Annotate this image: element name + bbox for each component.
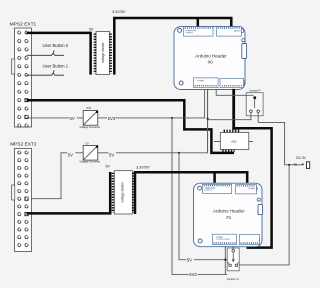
svg-text:MPS2 EXT2: MPS2 EXT2 xyxy=(10,142,37,148)
chip U5 left lead xyxy=(214,141,221,143)
svg-text:voltage divider: voltage divider xyxy=(120,181,124,202)
svg-text:Voltage Converter: Voltage Converter xyxy=(79,160,100,164)
svg-text:5V3: 5V3 xyxy=(108,116,116,121)
junction 5V to jumper branch xyxy=(178,152,180,154)
jumper J1 box xyxy=(246,89,263,116)
connector J_EXT1 pins xyxy=(18,31,28,127)
chip U5 top pins xyxy=(224,130,241,133)
wire EXT1 pin1 to voltage divider U2 (thick) xyxy=(27,33,91,75)
svg-text:3.3V/5V: 3.3V/5V xyxy=(112,10,126,14)
svg-text:MPS2 EXT1: MPS2 EXT1 xyxy=(10,22,37,28)
pushbutton S2 xyxy=(27,70,65,75)
board A0 bottom-left header xyxy=(193,78,218,88)
voltage divider U2 right pin row xyxy=(109,34,112,74)
DC IN barrel jack xyxy=(307,162,310,169)
svg-text:5V3: 5V3 xyxy=(87,106,92,110)
chip U5 right lead xyxy=(249,141,253,143)
wire board A0 bottom to chip U5 top (thick) xyxy=(232,89,235,130)
voltage converter U3 xyxy=(79,106,100,129)
jumper J2 box xyxy=(227,248,240,281)
svg-text:3.3V/5V: 3.3V/5V xyxy=(136,165,150,169)
wire 5V branch to jumper J2 (thin) xyxy=(179,153,227,260)
wire jumper J1 right pin to DC IN (thin) xyxy=(258,113,303,165)
wire EXT2 to converter U4 (thin) xyxy=(27,153,84,199)
connector J_EXT2 body xyxy=(12,149,32,252)
svg-text:Jumper J1: Jumper J1 xyxy=(227,277,240,281)
svg-text:#0: #0 xyxy=(208,60,214,65)
chip U5 (ADC) body xyxy=(220,132,249,149)
wire board A1 bottom to 5V3 (thin vertical) xyxy=(224,246,226,274)
connector J_EXT2 pins xyxy=(18,151,28,247)
pushbutton S1 xyxy=(27,50,65,55)
board A0 bottom-right header xyxy=(220,78,244,87)
board A1 side connector xyxy=(257,198,262,215)
wire board A0 bottom 5V vertical (thin) xyxy=(207,89,209,153)
board A0 top-right header xyxy=(217,27,242,36)
svg-text:User Button 0: User Button 0 xyxy=(43,43,69,48)
wire 5V3 net converter U3 to jumper J2 (thin) xyxy=(98,89,227,275)
board A1 top-left header xyxy=(203,184,232,193)
svg-text:Jumper P: Jumper P xyxy=(249,89,260,93)
svg-text:5V: 5V xyxy=(86,142,89,146)
wire board A0 bottom pin to jumper J1 select pin (thin) xyxy=(216,89,253,95)
svg-text:#1: #1 xyxy=(226,215,232,220)
voltage converter U4 xyxy=(79,142,100,164)
wire jumper J2 top pin to board A1 (thin) xyxy=(232,246,234,250)
Arduino Header #1 board A1 xyxy=(194,183,263,247)
svg-text:5V: 5V xyxy=(68,152,73,157)
wire divider U6 right to Arduino header #1 top (thick) xyxy=(135,172,247,214)
voltage divider U6 left pin row xyxy=(112,173,115,213)
svg-text:Voltage Converter: Voltage Converter xyxy=(79,125,100,129)
wire 5V net converter U4 to board A0 (thin) xyxy=(98,89,208,153)
chip U5 bottom pins xyxy=(222,149,234,152)
wire EXT2 to divider U6 (thick) xyxy=(27,172,111,213)
plug marks on DC IN wire xyxy=(294,163,304,166)
junction bend 5V3 xyxy=(171,117,173,119)
voltage divider U6 right pin row xyxy=(132,173,135,213)
board A0 top-left header xyxy=(184,27,213,36)
svg-text:Arduino Header: Arduino Header xyxy=(213,209,245,214)
svg-text:5V: 5V xyxy=(106,164,111,168)
wire jumper J1 left pin to 5V net (thin) xyxy=(208,113,251,120)
board A0 side connector xyxy=(242,39,247,59)
board A1 top-right header xyxy=(236,185,257,194)
wire branch into board A1 top-left header (thick) xyxy=(213,172,216,183)
voltage divider U2 left pin row xyxy=(94,34,97,74)
svg-text:5V: 5V xyxy=(187,257,192,262)
junction jumper J1 wire to 5V vertical xyxy=(207,118,209,120)
svg-text:5V: 5V xyxy=(89,27,94,31)
svg-text:5V: 5V xyxy=(109,152,114,157)
wire EXT1 to chip U5 (thick long) xyxy=(27,100,235,153)
wire EXT1 5V to converter U3 (thin) xyxy=(27,117,84,119)
Arduino Header #0 board A0 xyxy=(174,27,245,90)
voltage divider U6 body xyxy=(114,171,132,214)
wire divider U2 right to Arduino header #0 top (thick) xyxy=(114,18,231,75)
svg-text:Arduino Header: Arduino Header xyxy=(195,53,227,58)
wire branch into board A0 top-left header (thick) xyxy=(197,18,200,27)
svg-text:DC IN: DC IN xyxy=(296,156,306,160)
board A1 bottom-left header xyxy=(212,234,236,245)
svg-text:User Button 1: User Button 1 xyxy=(43,64,69,69)
junction DC IN branch xyxy=(288,164,290,166)
voltage divider U2 body xyxy=(96,32,110,75)
svg-text:voltage divider: voltage divider xyxy=(101,41,105,62)
connector J_EXT1 body xyxy=(12,28,32,127)
wire branch chip top to right drop (thick) xyxy=(232,128,271,247)
wire DC IN branch down to jumper J2 right pin (thin) xyxy=(239,165,290,265)
svg-text:5V3: 5V3 xyxy=(189,272,197,277)
svg-text:5V: 5V xyxy=(70,116,75,121)
svg-text:ADC: ADC xyxy=(231,139,237,143)
board A1 bottom-right header xyxy=(239,235,259,245)
junction 5V at jumper J2 xyxy=(224,259,226,261)
